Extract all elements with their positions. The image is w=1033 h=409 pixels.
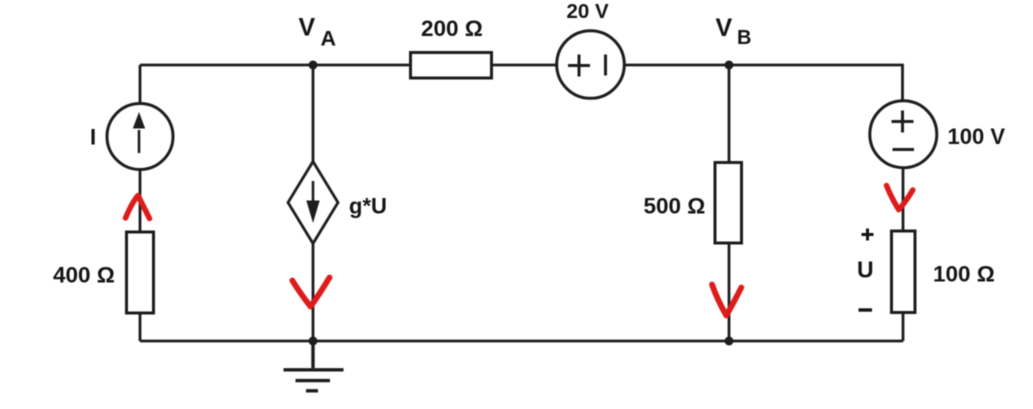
svg-text:100 V: 100 V [948,124,1006,149]
wire: node VA to 200ohm resistor [313,64,410,67]
20V source plus sign [568,55,606,77]
wire: node VB down to 500ohm resistor [728,65,731,163]
svg-text:A: A [321,27,337,51]
wire: 200ohm resistor to 20V source [492,64,557,67]
svg-text:500 Ω: 500 Ω [644,194,706,219]
wire: node VB to top-right corner down to 100V source [729,65,903,101]
wire: 100ohm resistor to bottom bus [902,313,905,341]
red current arrow below g*U (check mark) [292,278,329,307]
red current arrow at 400ohm branch (up chevron) [126,196,150,219]
wire top bus: current source to node VA [140,64,313,67]
wire: 400ohm resistor to bottom bus [139,313,142,341]
svg-text:U: U [857,257,874,283]
wire: current source to 400ohm resistor [139,169,142,232]
red current arrow below 100V source (check mark) [887,186,913,210]
wire: top-left corner down to current source [139,65,142,104]
node VA junction dot [309,61,318,70]
100V source minus sign [893,148,915,151]
current source I (circle) [107,104,173,170]
current source I arrow [133,112,145,153]
ground [284,341,344,391]
ground node junction dot [309,337,318,346]
dependent current source g*U (diamond) [288,162,338,244]
svg-text:100 Ω: 100 Ω [933,262,995,287]
svg-text:I: I [90,125,96,150]
svg-text:V: V [299,14,316,42]
node VB junction dot [725,61,734,70]
g*U arrow [306,181,319,223]
red current arrow below 500ohm (check mark) [712,285,741,316]
wire: 100V source to 100ohm resistor [902,168,905,231]
svg-text:V: V [716,14,733,42]
wire: 500ohm resistor to bottom node [728,243,731,341]
resistor 500ohm [715,163,742,244]
label plus of U [862,229,874,241]
wire: node VA down to g*U diamond [312,65,315,162]
voltage source 100V (circle) [870,101,937,168]
resistor 400ohm [127,232,154,313]
20V source bar terminal [604,55,607,76]
resistor 100ohm [892,231,916,313]
bottom node under 500ohm junction dot [725,337,734,346]
wire: 20V source to node VB [624,64,729,67]
voltage source 20V (circle) [557,31,625,99]
wire bottom bus [140,340,903,343]
svg-text:400 Ω: 400 Ω [53,263,115,288]
resistor 200ohm [411,53,492,79]
svg-text:200 Ω: 200 Ω [421,16,483,41]
svg-text:B: B [737,27,751,49]
label minus of U [859,308,873,311]
wire: g*U diamond to bottom node [312,243,315,341]
svg-text:20 V: 20 V [567,0,609,23]
svg-text:g*U: g*U [349,194,387,219]
100V source plus sign [892,111,915,150]
